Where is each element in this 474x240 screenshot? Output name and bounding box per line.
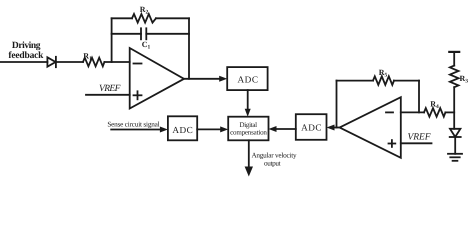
resistor R1 — [83, 58, 104, 67]
resistor R5 — [373, 76, 394, 85]
node junction feedback tap — [111, 18, 113, 62]
wire right ADC to digital compensation — [275, 128, 296, 130]
resistor R4 — [424, 108, 445, 117]
wire feedback right vertical U2 — [418, 81, 420, 113]
wire R3 to node — [453, 87, 455, 129]
wire angular velocity output — [248, 140, 250, 169]
ADC block U4 — [168, 116, 197, 140]
svg-text:ADC: ADC — [238, 75, 259, 85]
wire VREF to plus input — [86, 94, 130, 96]
wire sense signal to ADC — [111, 129, 162, 131]
svg-text:Sense circuit signal: Sense circuit signal — [107, 121, 159, 129]
ADC block U5 — [296, 114, 327, 140]
wire capacitor branch right — [146, 33, 189, 35]
label Sense circuit signal — [107, 121, 159, 129]
wire diode to R1 — [56, 61, 83, 63]
wire capacitor branch left — [112, 33, 141, 35]
label Driving feedback — [8, 41, 44, 61]
svg-text:R1: R1 — [83, 52, 92, 63]
wire feedback top branch right — [156, 17, 189, 19]
svg-text:feedback: feedback — [8, 51, 44, 61]
svg-text:VREF: VREF — [407, 132, 430, 142]
wire feedback top left segment — [337, 80, 374, 82]
node VREF right — [407, 132, 430, 142]
wire op-amp U1 output to ADC — [184, 78, 221, 80]
svg-text:ADC: ADC — [172, 125, 193, 135]
wire feedback left vertical U2 — [336, 81, 338, 128]
svg-text:Driving: Driving — [12, 41, 41, 51]
wire op-amp U2 output to ADC — [333, 127, 340, 129]
power rail bar — [449, 51, 459, 53]
ground — [448, 153, 462, 155]
op-amp U2 — [340, 97, 401, 158]
wire power to R3 — [453, 52, 455, 66]
svg-text:C1: C1 — [142, 40, 151, 51]
svg-text:R4: R4 — [430, 99, 439, 110]
wire ADC to digital compensation — [197, 128, 222, 130]
wire diode to ground — [454, 137, 456, 154]
svg-text:VREF: VREF — [99, 84, 121, 94]
svg-text:compensation: compensation — [230, 128, 267, 136]
wire feedback right vertical — [188, 18, 190, 79]
diode D2 — [450, 129, 460, 137]
node VREF left — [99, 84, 121, 94]
svg-text:R2: R2 — [140, 5, 149, 16]
svg-text:R3: R3 — [460, 74, 469, 85]
svg-text:output: output — [264, 160, 281, 168]
wire ADC down to digital compensation — [247, 90, 249, 111]
digital compensation block — [228, 117, 268, 141]
svg-text:ADC: ADC — [301, 123, 322, 133]
ADC block U3 — [227, 67, 267, 90]
wire VREF to U2 plus input — [401, 142, 432, 144]
wire R4 to divider node — [445, 111, 454, 113]
svg-text:R5: R5 — [379, 68, 388, 79]
op-amp U1 — [130, 48, 184, 109]
svg-text:Angular velocity: Angular velocity — [251, 151, 297, 159]
diode D1 — [47, 57, 55, 66]
capacitor C1 — [140, 28, 142, 39]
wire feedback top branch left — [112, 17, 132, 19]
wire R1 to op-amp U1 minus input — [104, 61, 129, 63]
wire input to diode D1 — [0, 61, 47, 63]
resistor R2 — [132, 14, 156, 23]
wire feedback top right segment — [394, 80, 419, 82]
wire U2 minus input — [401, 111, 424, 113]
resistor R3 — [450, 66, 459, 88]
